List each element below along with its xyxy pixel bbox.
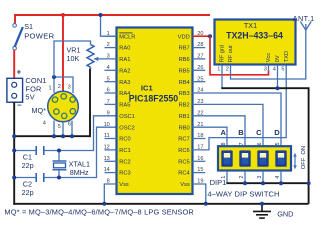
pin 5 RA3 (left) xyxy=(105,76,131,86)
svg-text:RB3: RB3 xyxy=(179,91,190,97)
svg-text:B: B xyxy=(238,128,244,137)
svg-text:MQ* = MQ–3/MQ–4/MQ–6/MQ–7/MQ–8: MQ* = MQ–3/MQ–4/MQ–6/MQ–7/MQ–8 LPG SENSO… xyxy=(4,208,194,217)
svg-text:1: 1 xyxy=(107,31,110,37)
svg-text:VDD: VDD xyxy=(178,34,190,40)
pin 18 RC7 (right) xyxy=(178,133,205,143)
svg-text:26: 26 xyxy=(197,65,203,71)
switch S1 xyxy=(13,24,23,50)
wire MQ pin 4 xyxy=(53,121,55,137)
pin 19 Vss (right) xyxy=(180,179,203,189)
svg-text:RB7: RB7 xyxy=(179,46,190,52)
pin 13 RC2 (left) xyxy=(104,156,131,166)
DIP switch element 1 xyxy=(221,150,232,166)
svg-text:D: D xyxy=(274,128,280,137)
svg-text:MQ*: MQ* xyxy=(32,106,47,115)
svg-text:RA1: RA1 xyxy=(119,57,130,63)
svg-text:MCLR: MCLR xyxy=(119,34,135,40)
svg-text:0V: 0V xyxy=(275,55,281,62)
pin 23 RB2 (right) xyxy=(179,99,204,109)
svg-text:14: 14 xyxy=(104,167,110,173)
svg-text:RC6: RC6 xyxy=(178,148,189,154)
svg-text:RC7: RC7 xyxy=(178,137,189,143)
DIP bottom stub 3 xyxy=(262,171,264,184)
transmitter TX1 TX2H-433-64 body xyxy=(215,20,296,65)
svg-text:OSC2: OSC2 xyxy=(119,125,135,131)
svg-text:DIP1: DIP1 xyxy=(210,178,227,187)
svg-text:10K: 10K xyxy=(67,54,80,63)
svg-text:RB5: RB5 xyxy=(179,68,190,74)
DIP bottom stub 2 xyxy=(244,171,246,184)
svg-text:10: 10 xyxy=(104,122,110,128)
junction MCLR/+5V xyxy=(99,13,103,17)
junction Vss8/ground rail xyxy=(102,202,106,206)
svg-text:4: 4 xyxy=(107,65,110,71)
svg-text:RA3: RA3 xyxy=(119,80,130,86)
DIP bottom stub 1 xyxy=(226,171,228,184)
pin 26 RB5 (right) xyxy=(179,65,206,75)
svg-text:Vss: Vss xyxy=(119,182,129,188)
svg-text:RB0: RB0 xyxy=(179,125,190,131)
svg-text:RC5: RC5 xyxy=(178,159,189,165)
junction DIP rail/right rail xyxy=(307,181,311,185)
svg-text:RA0: RA0 xyxy=(119,46,130,52)
DIP bottom stub 4 xyxy=(280,171,282,184)
junction DIP/ground xyxy=(279,181,283,185)
wire TX1 pin4 0V to ground xyxy=(277,65,279,88)
svg-text:5: 5 xyxy=(275,142,281,145)
wire RB0 to DIP switch A xyxy=(193,127,228,147)
svg-text:6: 6 xyxy=(257,142,263,145)
pin 16 RC5 (right) xyxy=(178,156,205,166)
svg-text:12: 12 xyxy=(104,145,110,151)
junction MQ pin6/ground xyxy=(70,134,74,138)
junction +5V / MQ pin2 xyxy=(61,13,65,17)
svg-text:RB2: RB2 xyxy=(179,103,190,109)
svg-text:C: C xyxy=(256,128,262,137)
junction C2/ground xyxy=(12,176,16,180)
ground rail bottom xyxy=(13,203,308,205)
ground rail MQ sensor xyxy=(14,69,90,137)
junction MQ pin4/ground xyxy=(52,134,56,138)
wire RB2 to DIP switch C xyxy=(193,104,264,147)
junction ground/MQ rail xyxy=(12,134,16,138)
svg-text:11: 11 xyxy=(104,133,110,139)
svg-text:6: 6 xyxy=(68,122,71,128)
svg-text:RC4: RC4 xyxy=(178,171,189,177)
svg-text:+: + xyxy=(17,67,22,76)
svg-text:A: A xyxy=(220,128,226,137)
junction C1/ground xyxy=(12,149,16,153)
svg-text:18: 18 xyxy=(197,133,203,139)
junction MQ pins 1,3 xyxy=(52,75,56,79)
wire TX1 pin2 RF out to antenna xyxy=(231,30,306,79)
pin 15 RC4 (right) xyxy=(178,167,205,177)
wire +5V top rail xyxy=(15,15,210,24)
pin 11 RC0 (left) xyxy=(104,133,131,143)
wire TX1 pin1 RF grd to ground xyxy=(221,65,223,88)
potentiometer VR1 zigzag xyxy=(87,45,94,68)
svg-text:TX1: TX1 xyxy=(244,21,257,30)
wire +5V to MQ pin 2 xyxy=(62,15,64,92)
wire Vss pin19 to ground xyxy=(193,184,206,204)
junction MQ pin5/ground xyxy=(61,134,65,138)
svg-text:28: 28 xyxy=(197,42,203,48)
antenna ANT.1 xyxy=(300,22,311,31)
svg-text:16: 16 xyxy=(197,156,203,162)
pin 1 MCLR (left) xyxy=(105,31,136,41)
svg-text:RC0: RC0 xyxy=(119,137,130,143)
ground rail TX xyxy=(221,88,308,204)
wire RC6 to TX1 TXD xyxy=(193,65,287,150)
svg-text:2: 2 xyxy=(58,84,61,90)
wire VDD pin20 xyxy=(193,35,211,37)
pin 2 RA0 (left) xyxy=(105,42,131,52)
wire S1 to CON1 + xyxy=(13,50,15,78)
wire C2 node (OSC2) xyxy=(14,127,116,177)
capacitor C1 xyxy=(36,146,44,155)
crystal XTAL1 xyxy=(53,151,67,178)
wire TX1 pin3 Vcc stub xyxy=(268,65,270,72)
svg-text:3: 3 xyxy=(257,176,263,179)
svg-text:RC1: RC1 xyxy=(119,148,130,154)
wire Vss pin8 to ground xyxy=(104,184,116,204)
svg-text:RB6: RB6 xyxy=(179,57,190,63)
pin 22 RB1 (right) xyxy=(179,110,204,120)
TX1 pin 2 RF out xyxy=(226,45,234,73)
VR1 wiper arrow xyxy=(94,58,98,60)
DIP switch element 3 xyxy=(257,150,268,166)
wire MQ pins 1,3 tie xyxy=(54,77,73,93)
pin 25 RB4 (right) xyxy=(179,76,206,86)
pin 27 RB6 (right) xyxy=(179,54,206,64)
svg-text:2: 2 xyxy=(226,67,229,73)
wire RB3 to DIP switch D xyxy=(193,93,282,147)
svg-text:RF grd: RF grd xyxy=(220,45,226,62)
svg-text:1: 1 xyxy=(49,86,52,92)
svg-text:4: 4 xyxy=(273,67,276,73)
pin 12 RC1 (left) xyxy=(104,145,131,155)
svg-text:RF out: RF out xyxy=(228,45,234,62)
ON/OFF arrow xyxy=(293,153,297,169)
wire CON1 minus to ground rail xyxy=(13,102,15,205)
svg-text:5: 5 xyxy=(107,76,110,82)
junction XTAL/C2 xyxy=(57,176,61,180)
svg-text:4–WAY DIP SWITCH: 4–WAY DIP SWITCH xyxy=(207,190,279,199)
svg-text:TX2H–433–64: TX2H–433–64 xyxy=(226,31,283,41)
svg-text:ON: ON xyxy=(301,146,307,155)
svg-text:RB4: RB4 xyxy=(179,80,190,86)
pin 8 Vss (left) xyxy=(107,179,129,189)
svg-text:RA4: RA4 xyxy=(119,91,130,97)
capacitor C2 xyxy=(36,173,44,182)
svg-text:5V: 5V xyxy=(25,93,34,102)
wire MCLR to +5V xyxy=(101,15,117,36)
junction VDD/+5V xyxy=(208,34,212,38)
svg-text:TXD: TXD xyxy=(284,51,290,62)
svg-text:RC2: RC2 xyxy=(119,159,130,165)
svg-text:6: 6 xyxy=(107,88,110,94)
pin 7 RA5 (left) xyxy=(105,99,131,109)
junction Vss19/ground rail xyxy=(204,202,208,206)
svg-text:OSC1: OSC1 xyxy=(119,114,135,120)
svg-text:RB1: RB1 xyxy=(179,114,190,120)
svg-text:13: 13 xyxy=(104,156,110,162)
svg-text:8: 8 xyxy=(221,142,227,145)
svg-text:3: 3 xyxy=(264,67,267,73)
svg-text:RA2: RA2 xyxy=(119,68,130,74)
svg-text:4: 4 xyxy=(43,121,46,127)
wire MQ junction to VR1 top xyxy=(54,41,91,77)
pin 4 RA2 (left) xyxy=(105,65,131,75)
pin 20 VDD (right) xyxy=(178,31,204,41)
svg-text:25: 25 xyxy=(197,76,203,82)
svg-text:POWER: POWER xyxy=(24,32,54,41)
pin 28 RB7 (right) xyxy=(179,42,206,52)
svg-text:1: 1 xyxy=(217,67,220,73)
pin 14 RC3 (left) xyxy=(104,167,131,177)
svg-text:9: 9 xyxy=(107,110,110,116)
svg-text:5: 5 xyxy=(58,124,61,130)
svg-text:ANT.1: ANT.1 xyxy=(293,14,315,23)
DIP switch element 2 xyxy=(239,150,250,166)
TX1 pin 1 RF grd xyxy=(217,45,225,73)
pin 10 OSC2 (left) xyxy=(104,122,135,132)
svg-text:7: 7 xyxy=(239,142,245,145)
pin 3 RA1 (left) xyxy=(107,54,131,64)
svg-text:8MHz: 8MHz xyxy=(70,168,89,177)
wire RB1 to DIP switch B xyxy=(193,116,246,147)
TX1 pin 3 Vcc xyxy=(264,53,272,73)
TX1 pin 4 0V xyxy=(273,55,281,73)
svg-text:7: 7 xyxy=(107,99,110,105)
svg-text:Vss: Vss xyxy=(180,182,190,188)
svg-text:IC1: IC1 xyxy=(141,83,154,92)
svg-text:PIC18F2550: PIC18F2550 xyxy=(129,93,178,103)
pin 9 OSC1 (left) xyxy=(107,110,135,120)
connector CON1 xyxy=(7,78,23,102)
wire C1 node (OSC1) xyxy=(14,116,116,151)
op IC1 PIC18F2550 body xyxy=(117,28,193,195)
pin 17 RC6 (right) xyxy=(178,145,203,155)
junction DIP/ground xyxy=(243,181,247,185)
svg-text:2: 2 xyxy=(239,176,245,179)
pin 24 RB3 (right) xyxy=(179,88,204,98)
svg-text:S1: S1 xyxy=(24,22,33,31)
switch DIP1 body xyxy=(218,146,291,170)
wire MQ pin 6 xyxy=(71,121,73,137)
svg-text:GND: GND xyxy=(277,209,293,218)
svg-text:4: 4 xyxy=(275,176,281,179)
svg-text:RA5: RA5 xyxy=(119,103,130,109)
svg-text:Vcc: Vcc xyxy=(266,53,272,63)
svg-text:2: 2 xyxy=(107,42,110,48)
DIP switch element 4 xyxy=(275,150,286,166)
junction DIP/ground xyxy=(261,181,265,185)
svg-text:–: – xyxy=(17,100,22,109)
wire MQ pin 5 xyxy=(62,122,64,136)
TX1 pin 5 TXD xyxy=(281,51,289,73)
junction GND/rail xyxy=(260,202,264,206)
svg-text:5: 5 xyxy=(281,67,284,73)
pin 21 RB0 (right) xyxy=(179,122,204,132)
ground symbol GND xyxy=(253,204,271,218)
svg-text:15: 15 xyxy=(197,167,203,173)
junction TX 0V/ground xyxy=(276,86,280,90)
sensor MQ* body xyxy=(48,91,79,122)
svg-text:27: 27 xyxy=(197,54,203,60)
svg-text:22p: 22p xyxy=(22,188,34,197)
svg-text:22p: 22p xyxy=(22,161,34,170)
wire +5V to TX1 Vcc xyxy=(210,36,269,75)
svg-text:RC3: RC3 xyxy=(119,171,130,177)
svg-text:3: 3 xyxy=(68,85,71,91)
pin 6 RA4 (left) xyxy=(105,88,131,98)
svg-text:OFF: OFF xyxy=(301,157,307,169)
junction XTAL/C1 xyxy=(57,149,61,153)
wire VR1 wiper to RA1 xyxy=(98,58,117,60)
ground rail DIP xyxy=(226,182,308,184)
